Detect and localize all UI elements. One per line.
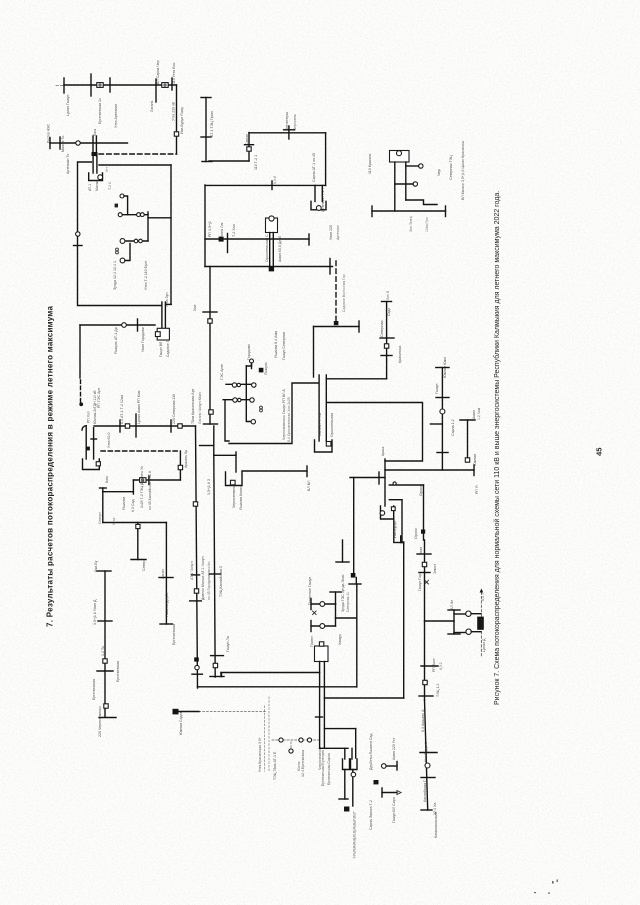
feeder F13 vertical (Elista south) (200, 426, 225, 677)
breaker CB10 (320, 624, 325, 629)
svg-text:Ороси: Ороси (414, 528, 418, 539)
svg-text:6,3 И: 6,3 И (273, 175, 277, 184)
svg-text:Гашун Ла: Гашун Ла (226, 636, 230, 652)
svg-text:Южная Садов: Южная Садов (179, 711, 183, 735)
transformer T2 tank (155, 328, 169, 340)
svg-text:ВЛ Сарпа Чер: ВЛ Сарпа Чер (156, 60, 160, 84)
svg-text:Аршань Кр: Аршань Кр (184, 450, 188, 468)
svg-text:Ком: Ком (105, 476, 109, 483)
busbar section x161 (162, 302, 166, 331)
wire: upper ring main (245, 126, 326, 145)
svg-text:Лага: Лага (93, 129, 97, 136)
feeder F11 vertical (401, 536, 404, 698)
svg-text:Хол Толга: Хол Толга (409, 216, 413, 232)
svg-text:Улан: Улан (419, 547, 423, 555)
svg-text:ТЭЦ 1,2: ТЭЦ 1,2 (436, 684, 440, 697)
small branch NE group tank (390, 151, 410, 163)
breaker CB8 (395, 182, 418, 186)
wire: dashed vertical tie (334, 261, 339, 325)
svg-text:Аман 220 Утт: Аман 220 Утт (392, 737, 396, 760)
svg-text:Ики-Бу: Ики-Бу (94, 560, 98, 572)
svg-text:Утта Т-2 110 Ерге: Утта Т-2 110 Ерге (144, 261, 148, 290)
svg-text:Яшалта Комсо: Яшалта Комсо (239, 485, 243, 510)
svg-text:Приют: Приют (310, 636, 314, 647)
svg-text:РП Я: РП Я (475, 485, 479, 494)
wire: south drop (421, 485, 425, 540)
svg-text:Улан 220: Улан 220 (329, 225, 333, 240)
svg-text:Утта Артезиан: Утта Артезиан (114, 104, 118, 128)
switch SW1 blob (79, 402, 83, 406)
svg-text:оп.45 Каспийская ГЭС К: оп.45 Каспийская ГЭС К (148, 470, 152, 510)
svg-text:Рисунок 7. Схема потокораспред: Рисунок 7. Схема потокораспределения для… (493, 191, 501, 705)
svg-text:Артезиан: Артезиан (336, 225, 340, 240)
svg-text:Лагань РП Ха: Лагань РП Ха (318, 413, 322, 436)
svg-text:6,3 Аршань А: 6,3 Аршань А (421, 709, 425, 732)
breaker CB7 (406, 164, 423, 168)
feeder stub F10 (336, 540, 349, 562)
substation box 3 (327, 403, 423, 462)
svg-text:Ергенинская: Ергенинская (92, 679, 96, 700)
main feeder F12 south (417, 540, 438, 700)
wire: dashed tie line (99, 153, 177, 155)
feeder F1 down from busbar D (131, 523, 146, 560)
transformer T6 leads (385, 459, 404, 543)
svg-text:Чер: Чер (437, 169, 441, 176)
svg-text:Красинска: Красинска (398, 346, 402, 363)
svg-text:Северная: Северная (380, 321, 384, 337)
svg-text:Чернозем: Чернозем (293, 114, 297, 130)
svg-text:Аман 63,0 Дерб: Аман 63,0 Дерб (278, 236, 282, 262)
bus C 110kV busbar (94, 414, 196, 437)
svg-text:Дербеты Яшалта Сад: Дербеты Яшалта Сад (369, 733, 373, 770)
svg-text:Северная ТЭЦ: Северная ТЭЦ (449, 155, 453, 180)
svg-text:Толга Лаг: Толга Лаг (220, 221, 224, 238)
busbar D heavy (103, 522, 167, 524)
transformer T8 tank (226, 472, 243, 486)
stub terminal with blob (173, 709, 200, 715)
node: double busbar coupler (92, 136, 98, 156)
transformer T3 tank (83, 459, 101, 470)
wire: west link and drop (229, 383, 319, 444)
svg-text:Южная 2хТДН 110 кВ: Южная 2хТДН 110 кВ (93, 390, 97, 424)
wire: dashed link right (101, 450, 180, 452)
svg-text:110 Т-2 1: 110 Т-2 1 (254, 155, 258, 170)
svg-text:Сарпа 1,2: Сарпа 1,2 (451, 419, 455, 436)
svg-text:Кетченеры: Кетченеры (285, 112, 289, 130)
svg-text:Черноземельс: Черноземельс (318, 746, 322, 770)
svg-text:Яшкуль: Яшкуль (264, 362, 268, 375)
wires group placeholder (56, 74, 357, 771)
svg-text:6,3 Т: 6,3 Т (481, 592, 485, 601)
substation box 2 top edge (314, 321, 360, 377)
breaker CB9 (320, 602, 325, 607)
svg-text:Утта Красинская 3,5+: Утта Красинская 3,5+ (258, 737, 262, 772)
substation outline box 1 (78, 162, 172, 306)
svg-text:Черноземельск Гашун РП ВЛ А: Черноземельск Гашун РП ВЛ А (282, 389, 286, 440)
svg-text:110 Утта Вос: 110 Утта Вос (172, 62, 176, 84)
svg-text:Аман: Аман (472, 410, 476, 419)
wire: faint dotted vertical pair (265, 697, 270, 771)
isolator S1 (174, 132, 178, 136)
svg-text:Садо: Садо (387, 308, 391, 316)
svg-text:Южная Южн: Южная Южн (443, 357, 447, 378)
svg-text:Ергенинская 2х: Ергенинская 2х (98, 98, 102, 124)
svg-text:АТ-1 Чолун: АТ-1 Чолун (190, 561, 194, 580)
svg-text:РП Хол: РП Хол (87, 411, 91, 423)
breaker row lower (223, 398, 254, 402)
svg-text:Каспийская Г: Каспийская Г (423, 780, 427, 802)
bus B 500kV busbar (60, 137, 128, 149)
symbol: double-circle mark 2 (260, 406, 263, 412)
svg-text:8,4 Оросительная Хол 2х25: 8,4 Оросительная Хол 2х25 (287, 397, 291, 442)
svg-text:6,3 Сад: 6,3 Сад (131, 498, 135, 512)
svg-text:Южная: Южная (473, 454, 477, 466)
svg-text:Хамур: Хамур (338, 634, 342, 645)
svg-text:Гашун Горо: Гашун Горо (418, 572, 422, 591)
wire: mid horizontal feeder (205, 181, 326, 190)
symbol: small double-circle mark (116, 248, 119, 254)
wire: link cluster to east feeder (336, 617, 357, 619)
svg-text:Яшкуль АТ-1 Ди: Яшкуль АТ-1 Ди (114, 327, 118, 354)
svg-text:Садовое Т: Садовое Т (166, 340, 170, 357)
wire: bus below box3 (389, 482, 423, 485)
feeder F4 long vertical east side (190, 426, 203, 688)
svg-text:78км Красинская Арт: 78км Красинская Арт (191, 388, 195, 424)
terminal blob (344, 807, 354, 859)
svg-text:Ики-Бурул Яшку: Ики-Бурул Яшку (180, 107, 184, 134)
svg-text:ВЛ Малые 3,5+j1,6 Цаган Красин: ВЛ Малые 3,5+j1,6 Цаган Красинска (461, 141, 465, 200)
svg-text:Хол: Хол (193, 305, 197, 311)
wire: east link from T5 (326, 378, 386, 380)
svg-text:Сарпа Элиста Т-2: Сарпа Элиста Т-2 (369, 800, 373, 830)
svg-text:220 Черноземельс: 220 Черноземельс (98, 706, 102, 737)
wire: horizontal with breaker (133, 476, 180, 485)
remote group: arrow feeder (382, 788, 401, 797)
svg-text:Сарпа: Сарпа (245, 134, 249, 145)
svg-text:Яшалта Дербе: Яшалта Дербе (165, 592, 169, 617)
remote group: breaker with lead (382, 762, 398, 771)
wire: feeder below box1 (80, 319, 155, 331)
svg-text:Малые: Малые (95, 180, 99, 191)
svg-text:8,4 АТ-1 Т-2 12км: 8,4 АТ-1 Т-2 12км (120, 395, 124, 424)
svg-text:Сарпа АТ-1 оп.45: Сарпа АТ-1 оп.45 (312, 153, 316, 182)
svg-text:Черноземельс: Черноземельс (232, 484, 236, 508)
wire: dashed section (80, 380, 82, 402)
isolator S3 (178, 424, 182, 428)
feeder F9 short with square (460, 420, 475, 462)
isolator S4 black (349, 573, 361, 687)
transformer T6 tank (380, 506, 395, 519)
svg-text:6,3 2: 6,3 2 (439, 662, 443, 670)
terminal blob 2 (259, 368, 264, 373)
wire: left feeder down (79, 325, 81, 378)
feeder F8 vertical with breaker (431, 368, 450, 471)
svg-text:Оросительная С: Оросительная С (265, 234, 269, 262)
transformer leads pair (269, 233, 274, 272)
svg-text:РП 3,5+j1: РП 3,5+j1 (208, 221, 212, 237)
svg-text:Хол Л: Хол Л (386, 291, 390, 300)
svg-text:Элист: Элист (433, 564, 437, 574)
feeder F2 down (159, 523, 173, 625)
svg-text:Утт: Утт (105, 166, 109, 172)
wire: long horizontal to SE (198, 686, 357, 688)
wire: bus H long horizontal (221, 673, 320, 677)
dotted tie with breakers (272, 738, 320, 753)
breaker CB2 on bus A (162, 83, 168, 88)
svg-text:3,5+j1,6 З: 3,5+j1,6 З (207, 479, 211, 495)
svg-text:Гашун: Гашун (435, 384, 439, 394)
svg-text:Лагань: Лагань (150, 100, 154, 112)
svg-text:Ергенинская: Ергенинская (172, 624, 176, 645)
feeder F5 top center (201, 98, 212, 162)
wire: link to left feeder (100, 488, 134, 523)
wire: drop from mid feeder (204, 185, 206, 267)
svg-text:Цаган Д: Цаган Д (482, 638, 486, 652)
svg-text:Арша: Арша (381, 447, 385, 456)
svg-text:Комсомольский: Комсомольский (434, 812, 438, 838)
svg-text:Садовое Восточная Гор: Садовое Восточная Гор (342, 274, 346, 312)
svg-text:Утта Кетченеры Артезиан Ики-: Утта Кетченеры Артезиан Ики- (353, 812, 357, 858)
svg-text:Гашун ВЛ: Гашун ВЛ (159, 342, 163, 357)
svg-text:Север: Север (142, 561, 146, 571)
dashed tie south (480, 589, 484, 658)
svg-text:АТ-1: АТ-1 (88, 184, 92, 191)
svg-text:Ергенинская: Ергенинская (116, 661, 120, 682)
svg-text:Гашун Северная: Гашун Северная (282, 332, 286, 360)
breaker CB12 (466, 629, 471, 634)
bus G horizontal (372, 206, 446, 217)
wire: drop from breaker rows (225, 400, 229, 441)
svg-text:Яшалта: Яшалта (122, 497, 126, 510)
transformer T7 tank (315, 642, 329, 662)
faint page marks bottom right (534, 880, 558, 894)
svg-text:Утта: Утта (112, 518, 116, 525)
main feeder F12 lower (420, 700, 437, 810)
svg-text:ВЛ Че: ВЛ Че (450, 600, 454, 610)
svg-text:ГЭС Арте: ГЭС Арте (220, 364, 224, 380)
svg-text:Ики-Бурул: Ики-Бурул (393, 521, 397, 538)
bus A top-left 220kV busbar (56, 74, 177, 102)
wire: corner from box2 area down (350, 472, 385, 573)
svg-text:Приютное Гашун: Приютное Гашун (308, 577, 312, 605)
transformer T5 tank (315, 440, 333, 452)
branch with breakers east (425, 610, 466, 634)
svg-text:2х25 Т-2 ТЭЦ Дербеты Ул: 2х25 Т-2 ТЭЦ Дербеты Ул (140, 466, 144, 508)
bus F horizontal (205, 259, 333, 275)
transformer bank tanks (343, 759, 358, 770)
breaker CB4 on box1 left edge (76, 232, 80, 236)
svg-text:3,5+j1,6 Улан Д: 3,5+j1,6 Улан Д (93, 599, 97, 625)
wire: east branch down (315, 133, 326, 202)
svg-text:Артезиан Т-2 У: Артезиан Т-2 У (321, 186, 325, 212)
transformer T5 leads (319, 375, 326, 441)
feeder F6 west drop (203, 267, 218, 425)
svg-text:РП ГЭС Арт: РП ГЭС Арт (97, 388, 101, 408)
generator G1 box (266, 216, 278, 233)
breaker group inside box1 (120, 239, 148, 263)
wire: link to box right edge (99, 164, 171, 166)
switch mark X (313, 611, 317, 615)
svg-text:Дивное Малые АТ-1 Чолун: Дивное Малые АТ-1 Чолун (201, 556, 205, 600)
svg-text:45: 45 (595, 447, 604, 456)
breaker group upper inside box1 (118, 194, 171, 241)
small branch NE leads (395, 162, 406, 211)
svg-text:Лагань Чолун Южн: Лагань Чолун Южн (198, 392, 202, 424)
svg-text:Лаган: Лаган (161, 569, 165, 579)
transformer T3 leads (82, 426, 97, 459)
svg-text:Утта Зун: Утта Зун (165, 293, 169, 307)
isolator S2 (125, 424, 129, 428)
wire: tail below tanks (339, 770, 356, 807)
feeder F3 radial (97, 571, 116, 718)
breaker row upper (226, 383, 256, 387)
breaker pair cluster H lines (311, 592, 341, 632)
transformer block black (471, 614, 484, 632)
transformer T1 tank (89, 173, 103, 181)
remote group: ground symbol (374, 780, 379, 784)
breaker tail (246, 364, 255, 424)
wire: heavy drop from T7 (316, 662, 325, 749)
svg-text:Северн: Северн (98, 512, 102, 524)
svg-text:Т-2 С: Т-2 С (108, 181, 112, 190)
svg-text:Северная 11: Северная 11 (346, 592, 350, 612)
transformer T4 tank (311, 201, 326, 210)
svg-text:12,4 Ергенинска: 12,4 Ергенинска (301, 750, 305, 777)
wire: faint dotted continuation (199, 711, 266, 713)
tick: tap on box1 left edge (74, 245, 83, 247)
node Elista: jog (214, 452, 236, 472)
wire: lower branch (324, 728, 355, 730)
svg-text:Артезиан То: Артезиан То (66, 154, 70, 174)
wire: long east link (242, 466, 307, 477)
transformer bank leads (320, 729, 356, 759)
svg-text:Городови: Городови (247, 344, 251, 360)
breaker CB3 on bus B (76, 141, 80, 145)
svg-text:ТЭЦ 78км АТ-1 Е: ТЭЦ 78км АТ-1 Е (273, 751, 277, 780)
svg-text:РП Вост: РП Вост (432, 658, 436, 672)
feeder F7 vertical (380, 302, 394, 379)
wire: long south feeder header (385, 465, 474, 476)
transformer T1 winding leads (93, 156, 97, 173)
breaker drop small (250, 359, 254, 369)
svg-text:7. Результаты расчетов потокор: 7. Результаты расчетов потокораспределен… (46, 306, 55, 627)
svg-text:Цаган Гашун: Цаган Гашун (66, 95, 70, 116)
svg-text:Зунда ГЭС Зунда Элис: Зунда ГЭС Зунда Элис (341, 574, 345, 612)
svg-text:АТ-1 ТЭЦ Прию: АТ-1 ТЭЦ Прию (210, 110, 214, 137)
svg-text:Ики-Бурул 6: Ики-Бурул 6 (424, 742, 428, 762)
svg-text:1,2 То: 1,2 То (101, 646, 105, 656)
svg-text:110 Красинс: 110 Красинс (368, 153, 372, 174)
wire: vertical drop from bus A (176, 85, 178, 154)
breaker CB6 (140, 478, 146, 483)
svg-text:Ергенинская Сарпа: Ергенинская Сарпа (327, 753, 331, 785)
svg-text:1,2 Хам: 1,2 Хам (477, 407, 481, 420)
svg-text:Малые Го: Малые Го (61, 136, 65, 152)
symbol mark dark (115, 204, 118, 208)
svg-text:Гашун ВЛ Сарп: Гашун ВЛ Сарп (392, 797, 396, 823)
svg-text:12км При: 12км При (425, 217, 429, 232)
breaker CB1 on bus A (97, 83, 103, 88)
svg-text:Т-2 Хол: Т-2 Хол (232, 224, 236, 237)
svg-text:Ороси: Ороси (419, 485, 423, 496)
svg-text:Ростов АЭС: Ростов АЭС (47, 124, 51, 143)
svg-text:Яшалта 8,4 Ама: Яшалта 8,4 Ама (274, 331, 278, 358)
wire: bus B left extension (50, 138, 60, 149)
wire: drop with isolator (209, 133, 251, 162)
wire: drop from breaker line (132, 480, 134, 494)
svg-text:ВЛ ВЛ: ВЛ ВЛ (307, 480, 311, 491)
svg-text:оп.45 Городовиковск Ко: оп.45 Городовиковск Ко (207, 561, 211, 600)
bus E horizontal (205, 234, 309, 253)
wire: step link (406, 200, 437, 205)
svg-text:Утта 220 кВ: Утта 220 кВ (172, 101, 176, 121)
svg-text:Утта 63,0: Утта 63,0 (107, 432, 111, 448)
breaker CB5 (122, 323, 127, 328)
wire: jog Elista node (178, 451, 182, 480)
wire: link line east (324, 697, 403, 699)
breaker CB11 (466, 611, 471, 616)
svg-text:Зунда 12,4 12,4 1: Зунда 12,4 12,4 1 (113, 261, 117, 290)
svg-text:Оросительная: Оросительная (330, 413, 334, 437)
svg-text:Цаган Аман РП Ком: Цаган Аман РП Ком (137, 390, 141, 424)
svg-text:Улан Городови: Улан Городови (141, 327, 145, 352)
svg-text:ТЭЦ Каспийская З: ТЭЦ Каспийская З (219, 566, 223, 597)
svg-text:220 Северная 110: 220 Северная 110 (172, 394, 176, 424)
